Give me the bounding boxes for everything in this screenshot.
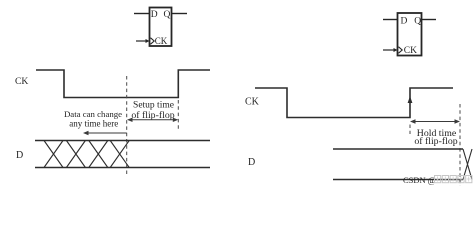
svg-text:CK: CK <box>404 46 417 56</box>
clock chevron of U1 <box>151 38 155 44</box>
wire Q output of U1 <box>172 13 188 15</box>
wire data-can-change left arrow <box>83 131 127 135</box>
wire D input of U1 <box>134 13 150 15</box>
svg-text:Data can change: Data can change <box>64 109 122 119</box>
wire Q output of U2 <box>422 19 437 21</box>
wire CK input of U1 with arrowhead <box>136 39 150 43</box>
flip-flop U2 (right D flip-flop box) <box>398 13 422 56</box>
wire clock edge up arrowhead <box>408 96 413 103</box>
svg-text:CK: CK <box>245 97 260 108</box>
node left dashed line at data-stable boundary <box>126 76 128 176</box>
node left dashed line at clock edge <box>177 100 179 130</box>
svg-text:CK: CK <box>155 36 168 46</box>
wire left D bus bottom line <box>35 167 210 169</box>
wire right CK waveform <box>255 88 453 118</box>
clock chevron of U2 <box>399 47 403 53</box>
svg-text:of flip-flop: of flip-flop <box>131 110 174 121</box>
svg-text:D: D <box>248 157 255 168</box>
wire hold time double arrow <box>410 119 460 123</box>
node right dashed continuation below clock edge <box>409 125 411 135</box>
flip-flop U1 (left D flip-flop box) <box>150 8 172 47</box>
svg-text:D: D <box>151 10 158 20</box>
svg-text:CSDN @: CSDN @ <box>403 175 436 185</box>
svg-text:D: D <box>401 16 408 26</box>
wire D input of U2 <box>383 19 398 21</box>
node right dashed line at end of hold time <box>459 104 461 186</box>
wire left CK waveform <box>36 70 210 98</box>
watermark <box>403 175 472 185</box>
wire right D bus transition crossing <box>463 149 472 180</box>
wire setup time double arrow <box>127 118 178 122</box>
wire right D bus top line <box>333 148 463 150</box>
svg-text:any time here: any time here <box>69 119 118 129</box>
wire left D bus crossing pattern <box>44 141 129 168</box>
svg-text:CK: CK <box>15 76 28 87</box>
wire right D bus bottom line <box>333 179 463 181</box>
wire CK input of U2 with arrowhead <box>383 48 398 52</box>
wire left D bus top line <box>35 140 210 142</box>
svg-text:Q: Q <box>414 16 421 26</box>
svg-text:D: D <box>16 150 23 161</box>
svg-text:of flip-flop: of flip-flop <box>414 136 457 147</box>
svg-text:Q: Q <box>164 10 171 20</box>
